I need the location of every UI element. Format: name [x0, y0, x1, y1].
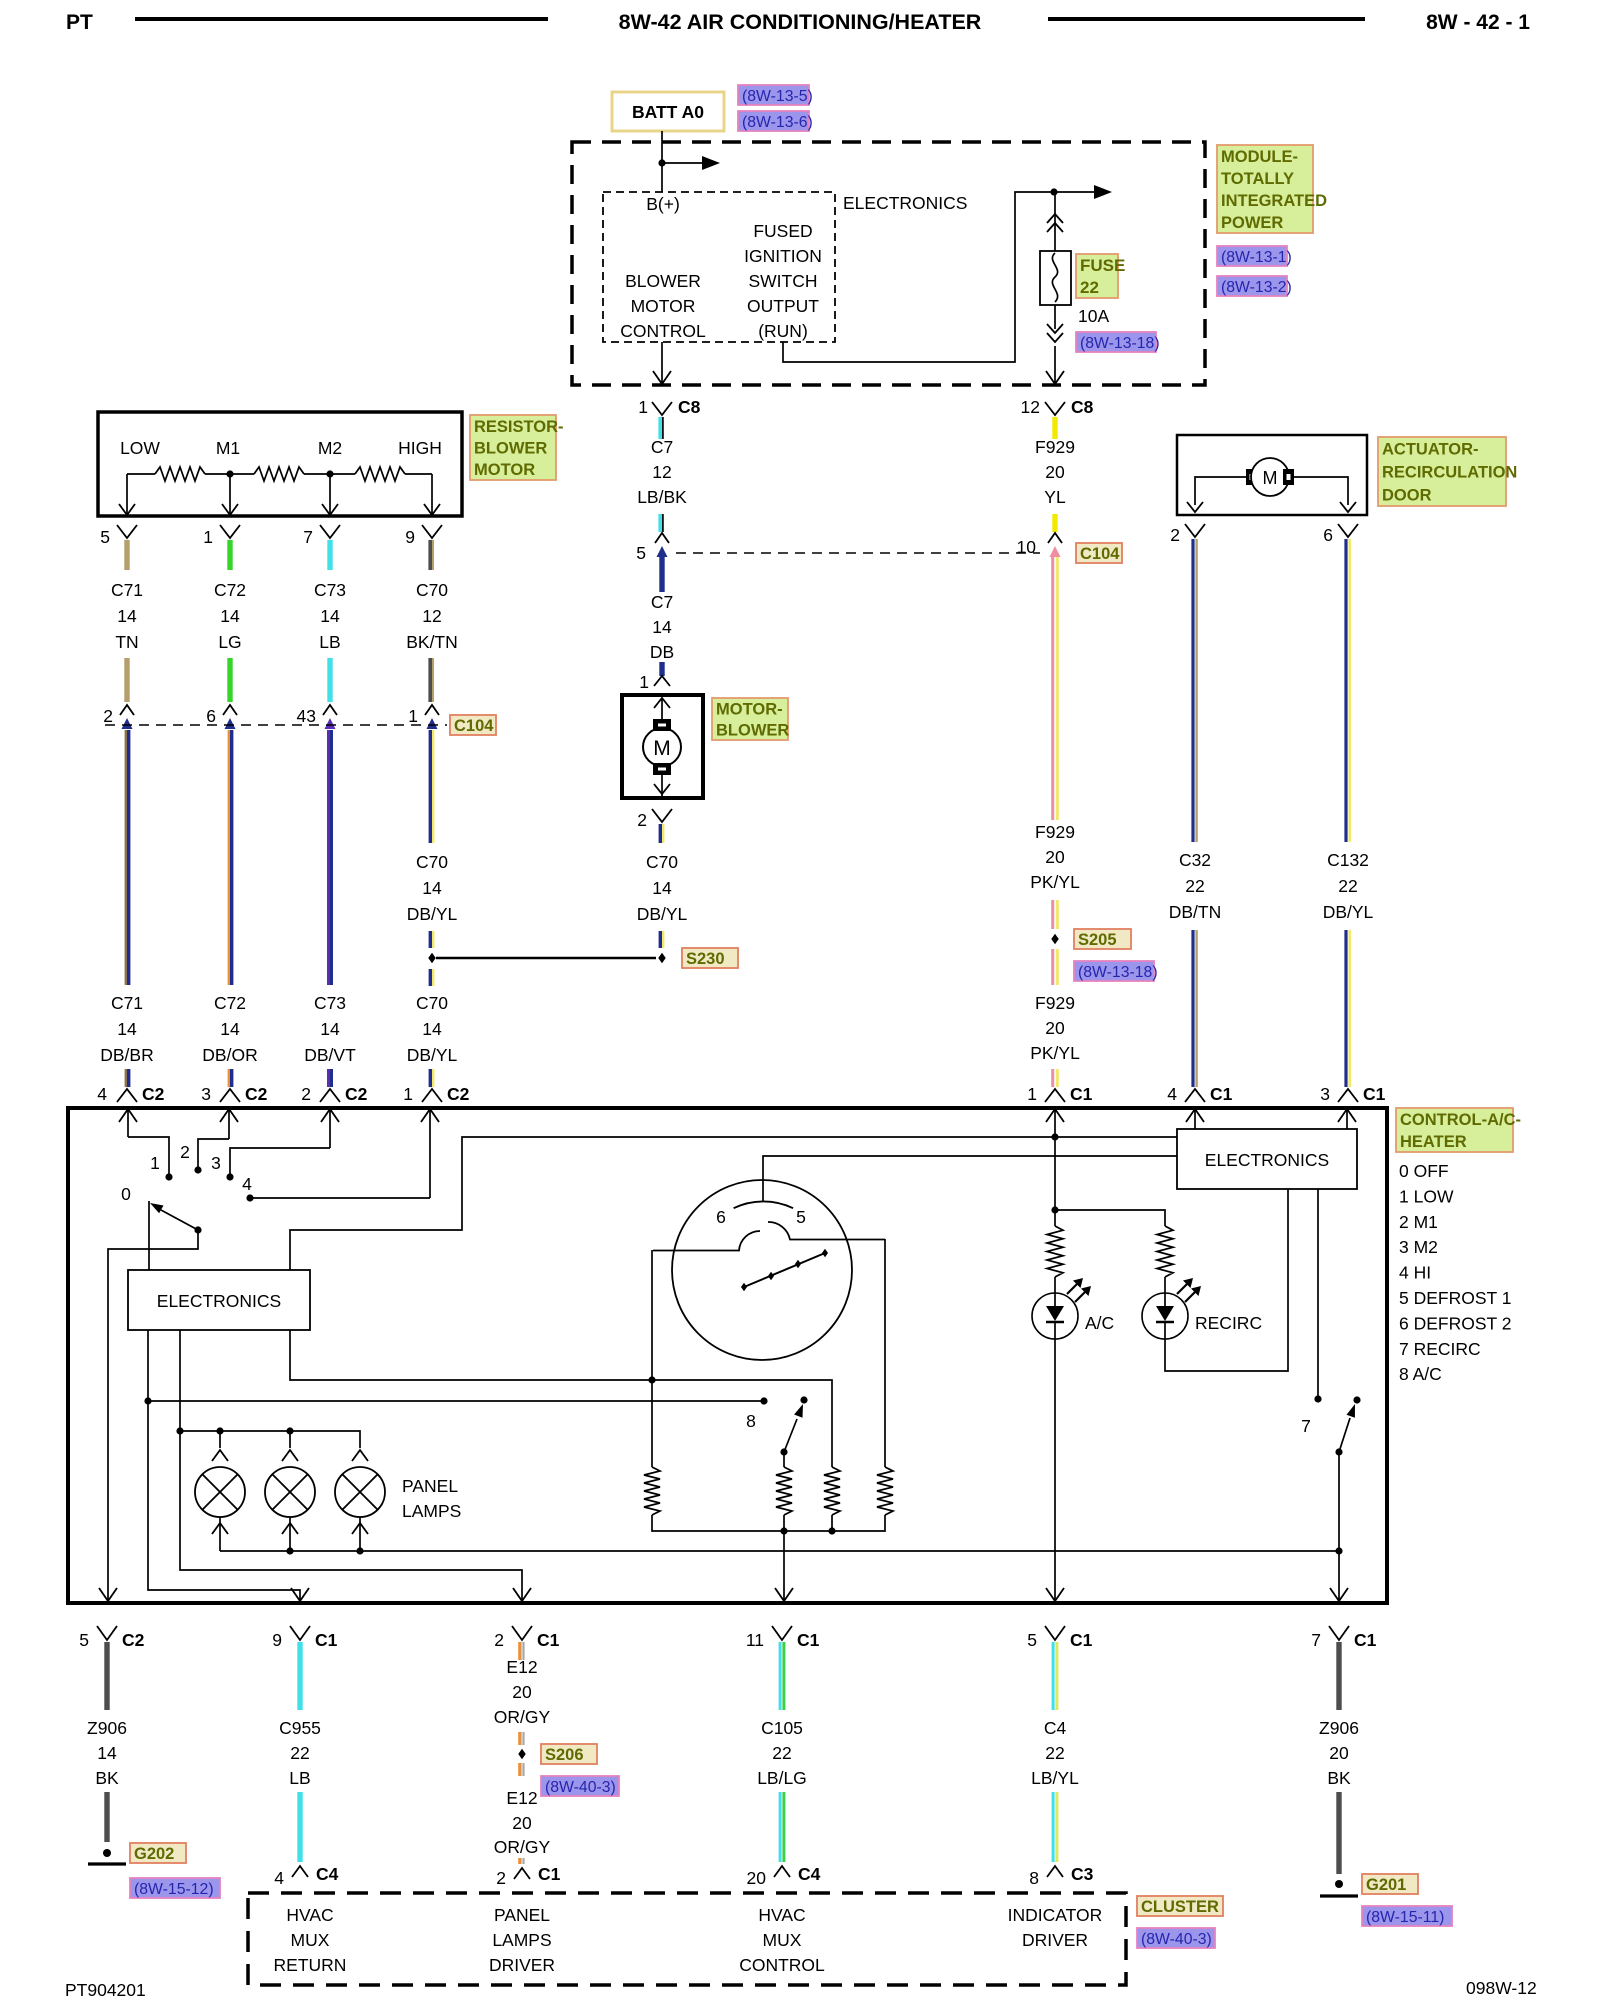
svg-text:20: 20 [512, 1813, 532, 1833]
rotary wiper arm [194, 1226, 201, 1233]
svg-text:C70: C70 [416, 852, 448, 872]
svg-text:E12: E12 [506, 1788, 537, 1808]
wire LB/LG to cluster C4 pin 20 [779, 1792, 782, 1862]
svg-text:6: 6 [1323, 525, 1333, 545]
LED RECIRC emission arrows [1177, 1284, 1187, 1294]
wire OR/GY below S206 [518, 1763, 521, 1776]
svg-text:5: 5 [79, 1630, 89, 1650]
svg-text:(8W-40-3): (8W-40-3) [545, 1779, 616, 1796]
entry arrow C2 pin 2 [321, 1109, 339, 1122]
svg-text:C1: C1 [537, 1630, 560, 1650]
wire C71 14 TN upper segment [124, 540, 129, 570]
wire contact 4 [250, 1197, 430, 1199]
svg-text:C1: C1 [538, 1864, 561, 1884]
svg-text:(RUN): (RUN) [758, 321, 808, 341]
svg-text:C4: C4 [798, 1864, 821, 1884]
svg-text:OR/GY: OR/GY [494, 1707, 551, 1727]
wire to exit C1 pin 2 [180, 1431, 522, 1601]
wire contact 2 [198, 1139, 229, 1167]
svg-text:C2: C2 [345, 1084, 368, 1104]
wire electronics to switch 8 line [147, 1330, 149, 1398]
svg-text:4 HI: 4 HI [1399, 1263, 1431, 1283]
svg-text:11: 11 [746, 1630, 764, 1650]
svg-text:3: 3 [1320, 1084, 1330, 1104]
svg-text:M2: M2 [318, 438, 342, 458]
wire to exit C1 pin 9 [148, 1401, 300, 1601]
svg-text:BLOWER: BLOWER [474, 440, 547, 458]
svg-text:F929: F929 [1035, 437, 1075, 457]
svg-text:OUTPUT: OUTPUT [747, 296, 819, 316]
actuator motor wiring [1195, 477, 1246, 505]
svg-text:(8W-13-1): (8W-13-1) [1221, 249, 1292, 266]
switch 8 A/C [800, 1396, 807, 1403]
wire F929 20 PK/YL long run [1051, 557, 1054, 820]
svg-text:LB/LG: LB/LG [757, 1768, 807, 1788]
svg-text:YL: YL [1044, 487, 1066, 507]
contact node switch 8 [760, 1397, 767, 1404]
svg-text:BK/TN: BK/TN [406, 632, 458, 652]
svg-text:DB/YL: DB/YL [407, 904, 458, 924]
svg-text:PK/YL: PK/YL [1030, 872, 1080, 892]
svg-text:S205: S205 [1078, 931, 1117, 949]
wire switch 8 line [148, 1400, 761, 1402]
wire F929 20 YL upper segment [1052, 417, 1057, 439]
entry arrow C2 pin 3 [220, 1109, 238, 1122]
svg-text:5: 5 [636, 543, 646, 563]
wire C73 LB to C104 [327, 658, 332, 702]
svg-text:5: 5 [1027, 1630, 1037, 1650]
junction to recirc resistor [1051, 1206, 1058, 1213]
actuator-recirculation door box [1177, 435, 1367, 515]
wire electronics to recirc switch [1317, 1189, 1319, 1396]
junction at C1 pin1 feed [1051, 1133, 1058, 1140]
label ACTUATOR-RECIRCULATION DOOR [1378, 437, 1506, 506]
switch 7 recirc [1353, 1396, 1360, 1403]
svg-text:C2: C2 [142, 1084, 165, 1104]
wire DB/YL to control C1 pin 3 [1344, 930, 1347, 1087]
svg-text:Z906: Z906 [1319, 1718, 1359, 1738]
label MOTOR-BLOWER [712, 698, 788, 740]
svg-text:9: 9 [405, 527, 415, 547]
wire HIGH tap [431, 474, 433, 514]
svg-text:IGNITION: IGNITION [744, 246, 822, 266]
svg-text:C1: C1 [1070, 1630, 1093, 1650]
svg-text:12: 12 [1021, 397, 1040, 417]
svg-text:20: 20 [747, 1868, 767, 1888]
svg-text:C7: C7 [651, 592, 673, 612]
resistor R1 [644, 1467, 660, 1515]
svg-text:2: 2 [180, 1142, 190, 1162]
wire to fuse 22 [1054, 192, 1056, 251]
svg-text:14: 14 [652, 617, 672, 637]
splice junction at S230 (left) [428, 953, 435, 963]
svg-text:TN: TN [115, 632, 138, 652]
svg-text:S230: S230 [686, 950, 725, 968]
LED A/C emission arrows [1067, 1284, 1077, 1294]
svg-text:ELECTRONICS: ELECTRONICS [843, 193, 967, 213]
wire C105 22 LB/LG upper [779, 1642, 782, 1710]
svg-text:DB: DB [650, 642, 674, 662]
svg-text:7 RECIRC: 7 RECIRC [1399, 1339, 1481, 1359]
wire resistor to RECIRC led [1164, 1277, 1166, 1294]
fuse 22 10A [1040, 251, 1071, 305]
svg-text:7: 7 [303, 527, 313, 547]
svg-text:C71: C71 [111, 580, 143, 600]
svg-text:F929: F929 [1035, 822, 1075, 842]
wire DB/BR to control C2 pin 4 [125, 1069, 127, 1087]
svg-text:BK: BK [95, 1768, 119, 1788]
wire F929 YL to C104 [1052, 514, 1057, 532]
control-a/c-heater box [68, 1108, 1387, 1603]
wire LB to cluster C4 pin 4 [297, 1792, 302, 1862]
svg-text:LB/BK: LB/BK [637, 487, 687, 507]
wire cam left to resistor R1 [651, 1250, 653, 1467]
svg-text:B(+): B(+) [646, 194, 680, 214]
svg-text:E12: E12 [506, 1657, 537, 1677]
svg-text:1: 1 [408, 706, 418, 726]
wire electronics to panel lamp bus [179, 1330, 181, 1431]
svg-text:C2: C2 [122, 1630, 145, 1650]
svg-text:5 DEFROST 1: 5 DEFROST 1 [1399, 1288, 1512, 1308]
svg-text:9: 9 [272, 1630, 282, 1650]
svg-text:MOTOR: MOTOR [631, 296, 696, 316]
svg-text:C3: C3 [1071, 1864, 1094, 1884]
svg-text:14: 14 [117, 606, 137, 626]
svg-text:(8W-40-3): (8W-40-3) [1141, 1931, 1212, 1948]
svg-text:DB/VT: DB/VT [304, 1045, 356, 1065]
wire C71 TN to C104 [124, 658, 129, 702]
svg-text:1 LOW: 1 LOW [1399, 1186, 1454, 1206]
node M2 [326, 470, 333, 477]
motor M1 body [643, 728, 681, 766]
svg-text:2: 2 [494, 1630, 504, 1650]
svg-text:1: 1 [1027, 1084, 1037, 1104]
svg-text:7: 7 [1311, 1630, 1321, 1650]
svg-text:3 M2: 3 M2 [1399, 1237, 1438, 1257]
svg-text:C955: C955 [279, 1718, 321, 1738]
wire C70 12 BK/TN upper segment [428, 540, 432, 570]
panel lamp 2 [289, 1431, 291, 1448]
arrow fused output continues [1054, 191, 1094, 193]
svg-text:DRIVER: DRIVER [489, 1955, 555, 1975]
label FUSE 22 [1076, 254, 1118, 298]
svg-text:22: 22 [1045, 1743, 1064, 1763]
svg-text:C104: C104 [1080, 545, 1120, 563]
svg-text:LB/YL: LB/YL [1031, 1768, 1079, 1788]
wire C7 14 DB segment [659, 557, 664, 592]
wire bus to exit C1 pin 11 [783, 1531, 785, 1601]
battery feed BATT A0 [612, 92, 724, 131]
svg-text:CLUSTER: CLUSTER [1141, 1898, 1219, 1916]
wire C70 14 DB/YL run to label [429, 730, 432, 843]
mode switch cam right [768, 1222, 885, 1240]
wire DB/YL to splice S230 [429, 931, 432, 948]
svg-text:C4: C4 [316, 1864, 339, 1884]
resistor RECIRC led [1157, 1226, 1173, 1277]
svg-text:1: 1 [150, 1153, 160, 1173]
svg-text:1: 1 [403, 1084, 413, 1104]
wire BATT A0 to B(+) [661, 131, 663, 192]
svg-text:C1: C1 [1070, 1084, 1093, 1104]
svg-text:14: 14 [220, 606, 240, 626]
svg-text:C7: C7 [651, 437, 673, 457]
svg-text:ACTUATOR-: ACTUATOR- [1382, 441, 1479, 459]
svg-text:RETURN: RETURN [274, 1955, 347, 1975]
svg-text:G201: G201 [1366, 1876, 1406, 1894]
wire OR/GY to cluster C1 pin 2 [518, 1858, 521, 1864]
panel lamp 1 [219, 1431, 221, 1448]
svg-text:M: M [1263, 468, 1278, 488]
junction lamp bus [176, 1427, 183, 1434]
wire Z906 20 BK upper [1336, 1642, 1341, 1710]
svg-text:14: 14 [220, 1019, 240, 1039]
resistor M2-HIGH [355, 467, 405, 481]
wire PK/YL to control C1 pin 1 [1051, 1069, 1054, 1087]
svg-text:C1: C1 [1354, 1630, 1377, 1650]
svg-text:ELECTRONICS: ELECTRONICS [1205, 1150, 1329, 1170]
svg-text:C70: C70 [416, 580, 448, 600]
svg-text:HVAC: HVAC [758, 1905, 805, 1925]
wire DB/YL to splice S230 [659, 931, 662, 948]
svg-text:HIGH: HIGH [398, 438, 442, 458]
wire blower motor control output [661, 342, 663, 383]
svg-text:FUSE: FUSE [1080, 256, 1125, 275]
entry arrow C2 pin 4 [119, 1109, 137, 1122]
svg-text:20: 20 [512, 1682, 532, 1702]
wire C7 DB to motor pin 1 [659, 662, 664, 676]
svg-text:CONTROL: CONTROL [739, 1955, 825, 1975]
svg-text:14: 14 [422, 1019, 442, 1039]
svg-text:2: 2 [301, 1084, 311, 1104]
wire contact 0 to electronics [148, 1201, 150, 1270]
link (8W-15-11) [1362, 1906, 1452, 1926]
wire C1 pin1 to A/C led [1046, 1109, 1064, 1122]
wire Z906 14 BK upper [104, 1642, 109, 1710]
link (8W-40-3) at S206 [541, 1776, 619, 1796]
inline connector chevrons below fuse [1047, 324, 1063, 333]
svg-text:PANEL: PANEL [402, 1476, 458, 1496]
wire switch 8 to resistor R2 [783, 1452, 785, 1467]
wire cam right to resistor R4 [884, 1239, 886, 1467]
wire below fuse [1054, 305, 1056, 329]
svg-text:CONTROL-A/C-: CONTROL-A/C- [1400, 1111, 1521, 1129]
svg-text:FUSED: FUSED [753, 221, 812, 241]
svg-text:LAMPS: LAMPS [402, 1501, 461, 1521]
wire A/C led to exit C1 pin 5 [1054, 1338, 1056, 1601]
wire C7 12 LB/BK upper segment [658, 417, 662, 439]
wire C72 14 DB/OR long run [228, 730, 230, 985]
wire DB/TN to control C1 pin 4 [1191, 930, 1194, 1087]
svg-text:098W-12: 098W-12 [1466, 1978, 1537, 1998]
label CONTROL-A/C-HEATER [1396, 1108, 1513, 1152]
svg-text:43: 43 [297, 706, 316, 726]
svg-text:BK: BK [1327, 1768, 1351, 1788]
rotary mode switch circle [672, 1180, 852, 1360]
wire OR/GY to splice S206 [518, 1732, 521, 1745]
svg-text:DB/OR: DB/OR [202, 1045, 257, 1065]
svg-text:2: 2 [496, 1868, 506, 1888]
svg-text:C72: C72 [214, 993, 246, 1013]
resistor LOW-M1 [127, 473, 155, 475]
svg-text:22: 22 [772, 1743, 791, 1763]
wire C70 14 DB/YL from motor [659, 824, 662, 843]
wire PK/YL below S205 [1051, 949, 1054, 985]
svg-text:20: 20 [1329, 1743, 1349, 1763]
link (8W-13-5) [738, 85, 809, 105]
wire C73 14 DB/VT long run [327, 730, 330, 985]
wire C32 22 DB/TN run [1191, 539, 1194, 842]
wire C132 22 DB/YL run [1344, 539, 1347, 842]
svg-text:A/C: A/C [1085, 1313, 1114, 1333]
wire motor bottom [661, 775, 663, 798]
wire M2 tap [329, 474, 331, 514]
wire DB/YL to control C2 pin 1 [429, 1069, 432, 1087]
svg-text:DB/YL: DB/YL [637, 904, 688, 924]
wire C7 LB/BK to C104 [658, 514, 662, 532]
svg-text:(8W-13-5): (8W-13-5) [742, 88, 813, 105]
wire PK/YL to splice S205 [1051, 900, 1054, 929]
entry arrow C2 pin 1 [421, 1109, 439, 1122]
svg-text:DB/TN: DB/TN [1169, 902, 1222, 922]
wire into motor top [661, 698, 663, 719]
svg-text:C32: C32 [1179, 850, 1211, 870]
junction switch 8 feed [144, 1397, 151, 1404]
svg-text:C1: C1 [1210, 1084, 1233, 1104]
wire C71 14 DB/BR long run [125, 730, 127, 985]
link (8W-13-1) [1217, 246, 1287, 266]
wire LOW tap [126, 474, 128, 514]
resistor R4 [877, 1467, 893, 1515]
svg-text:(8W-15-12): (8W-15-12) [134, 1881, 214, 1898]
svg-text:LB: LB [289, 1768, 310, 1788]
junction R1 line [648, 1376, 655, 1383]
junction switch7 and lamp return bus [1335, 1547, 1342, 1554]
resistor A/C led [1047, 1226, 1063, 1277]
svg-text:(8W-13-6): (8W-13-6) [742, 114, 813, 131]
ground G201 [1335, 1880, 1343, 1888]
svg-text:8W-42 AIR CONDITIONING/HEATER: 8W-42 AIR CONDITIONING/HEATER [619, 10, 982, 34]
svg-text:1: 1 [639, 672, 649, 692]
arrow battery feed continues [662, 162, 702, 164]
svg-text:2: 2 [1170, 525, 1180, 545]
svg-text:2: 2 [637, 810, 647, 830]
svg-text:8: 8 [1029, 1868, 1039, 1888]
svg-text:DRIVER: DRIVER [1022, 1930, 1088, 1950]
wire DB/OR to control C2 pin 3 [228, 1069, 230, 1087]
svg-text:LB: LB [319, 632, 340, 652]
svg-text:INDICATOR: INDICATOR [1008, 1905, 1103, 1925]
panel lamp 3 [352, 1450, 368, 1461]
svg-text:C73: C73 [314, 580, 346, 600]
svg-text:(8W-15-11): (8W-15-11) [1366, 1909, 1444, 1926]
wire DB/YL below S230 [429, 969, 432, 986]
svg-text:DB/YL: DB/YL [407, 1045, 458, 1065]
LED RECIRC [1142, 1293, 1188, 1339]
svg-text:S206: S206 [545, 1746, 584, 1764]
svg-text:DB/YL: DB/YL [1323, 902, 1374, 922]
svg-text:MOTOR-: MOTOR- [716, 701, 783, 719]
actuator motor brush left [1246, 469, 1257, 485]
svg-text:MOTOR: MOTOR [474, 461, 535, 479]
svg-text:C1: C1 [1363, 1084, 1386, 1104]
link (8W-40-3) at cluster [1137, 1928, 1215, 1948]
wire M1 tap [229, 474, 231, 514]
wire electronics to resistor R3 [290, 1330, 832, 1467]
entry arrow C1 pin 4 [1186, 1109, 1204, 1122]
svg-text:POWER: POWER [1221, 214, 1283, 232]
svg-text:4: 4 [242, 1174, 252, 1194]
svg-text:8W - 42 - 1: 8W - 42 - 1 [1426, 11, 1530, 34]
contact node 4 [246, 1194, 253, 1201]
wire E12 20 OR/GY upper [518, 1642, 521, 1660]
svg-text:0 OFF: 0 OFF [1399, 1161, 1449, 1181]
label CLUSTER [1137, 1896, 1223, 1916]
entry arrow C1 pin 3 [1338, 1109, 1356, 1122]
svg-text:C104: C104 [454, 717, 494, 735]
svg-text:C70: C70 [416, 993, 448, 1013]
label MODULE-TOTALLY INTEGRATED POWER [1217, 145, 1313, 233]
contact node 2 [194, 1166, 201, 1173]
svg-text:2 M1: 2 M1 [1399, 1212, 1438, 1232]
resistor R2 [776, 1467, 792, 1515]
svg-text:1: 1 [203, 527, 213, 547]
svg-text:MUX: MUX [291, 1930, 330, 1950]
svg-text:HEATER: HEATER [1400, 1133, 1467, 1151]
resistor M1-M2 [254, 467, 304, 481]
connector C104 dashed line (left) [105, 724, 447, 726]
svg-text:C132: C132 [1327, 850, 1369, 870]
contact node 3 [226, 1173, 233, 1180]
svg-text:C1: C1 [315, 1630, 338, 1650]
wire C73 14 LB upper segment [327, 540, 332, 570]
wire C4 22 LB/YL upper [1052, 1642, 1055, 1710]
svg-text:1: 1 [638, 397, 648, 417]
svg-text:C72: C72 [214, 580, 246, 600]
motor M1 brush top [653, 719, 671, 731]
svg-text:C71: C71 [111, 993, 143, 1013]
wire C72 14 LG upper segment [227, 540, 232, 570]
svg-text:7: 7 [1301, 1416, 1311, 1436]
svg-text:22: 22 [1080, 278, 1099, 297]
wire mode switch to electronics [763, 1156, 1177, 1201]
module - totally integrated power (dashed outline) [572, 142, 1205, 385]
link (8W-13-2) [1217, 276, 1287, 296]
wire C72 LG to C104 [227, 658, 232, 702]
svg-text:C105: C105 [761, 1718, 803, 1738]
junction node fused output [1050, 188, 1057, 195]
svg-text:10: 10 [1017, 537, 1037, 557]
link (8W-15-12) [130, 1878, 220, 1898]
label C104 (middle) [1076, 543, 1122, 563]
svg-text:TOTALLY: TOTALLY [1221, 170, 1294, 188]
splice S205 [1051, 934, 1058, 944]
svg-text:OR/GY: OR/GY [494, 1837, 551, 1857]
svg-text:MODULE-: MODULE- [1221, 148, 1298, 166]
svg-text:22: 22 [290, 1743, 309, 1763]
svg-text:14: 14 [652, 878, 672, 898]
svg-text:22: 22 [1338, 876, 1357, 896]
wire wiper common [108, 1230, 198, 1600]
wire splice S230 crossover [436, 957, 656, 960]
actuator motor body [1251, 458, 1289, 496]
svg-text:6: 6 [716, 1207, 726, 1227]
inner electronics dashed box [603, 192, 835, 342]
svg-text:2: 2 [103, 706, 113, 726]
svg-text:22: 22 [1185, 876, 1204, 896]
svg-text:BLOWER: BLOWER [625, 271, 701, 291]
svg-text:(8W-13-18): (8W-13-18) [1078, 964, 1158, 981]
svg-text:INTEGRATED: INTEGRATED [1221, 192, 1327, 210]
